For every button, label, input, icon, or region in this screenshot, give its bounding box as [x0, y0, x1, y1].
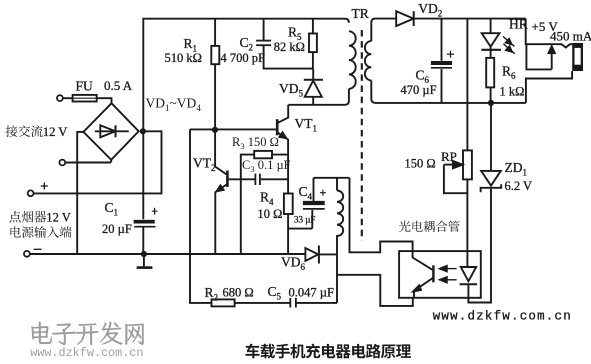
transistor VT2 [226, 171, 229, 187]
C4 plus mark [320, 192, 326, 194]
wire RP bottom to optocoupler LED [466, 179, 468, 267]
resistor R1 510k [214, 19, 216, 46]
wire feedback node to optocoupler collector [350, 178, 413, 253]
wire feedback winding bottom to VD6 and C5 [336, 235, 338, 303]
svg-text:1 kΩ: 1 kΩ [500, 85, 525, 99]
wire +5V rail VD2 cathode to jack [415, 18, 526, 20]
diode VD2 [396, 11, 413, 26]
watermark site name gray [31, 322, 144, 346]
svg-text:RP: RP [441, 149, 457, 164]
wire optocoupler emitter return [337, 275, 413, 306]
capacitor C2 4700pF [263, 19, 265, 40]
capacitor C5 0.047uF [289, 298, 291, 308]
transistor VT1 [276, 119, 279, 135]
optocoupler phototransistor [413, 251, 433, 270]
optocoupler LED [461, 267, 476, 281]
svg-text:TR: TR [352, 6, 369, 21]
wire LED cathode to ZD1 [468, 189, 491, 303]
terminal DC input minus [24, 251, 30, 257]
capacitor C3 0.1uF [254, 174, 256, 185]
VT1 emitter lead and node wire to R4 [278, 133, 288, 194]
svg-text:6.2 V: 6.2 V [505, 179, 533, 193]
resistor R2 680 [212, 299, 235, 306]
transformer TR secondary winding [365, 41, 371, 80]
svg-text:20 µF: 20 µF [102, 222, 132, 236]
svg-text:150 Ω: 150 Ω [405, 157, 436, 171]
svg-text:FU: FU [76, 79, 94, 94]
wire fuse to bridge AC1 [97, 98, 112, 103]
svg-text:0.047 µF: 0.047 µF [289, 286, 334, 300]
VT1 collector lead [278, 105, 288, 123]
capacitor C4 33uF [303, 201, 325, 205]
label optocoupler [399, 221, 460, 232]
svg-text:0.5 A: 0.5 A [104, 78, 133, 93]
plug insertion arrow [526, 44, 551, 69]
title car phone charger schematic [245, 344, 411, 359]
junction ground node [141, 251, 147, 257]
plus polarity mark [41, 185, 48, 187]
wire bridge negative to ground rail [77, 132, 83, 254]
wire C4 bottom link [288, 228, 312, 230]
wire R6 to return rail [490, 87, 492, 103]
label AC 12V input [6, 125, 43, 137]
wire down to R2 [190, 129, 212, 303]
wire secondary bottom output return rail [371, 80, 526, 103]
wire DC negative: C1 bottom to ground junction [142, 227, 144, 255]
RP wiper arrow and link [444, 164, 454, 166]
resistor R3 150 [254, 151, 272, 158]
wire DC plus input to positive node [33, 131, 161, 193]
wire R2 to C5 [235, 302, 290, 304]
output plug barrel [572, 43, 583, 71]
C6 plus mark [447, 53, 454, 55]
wire C4 top to feedback winding [314, 177, 350, 179]
C1 plus mark [154, 208, 156, 215]
svg-text:470 µF: 470 µF [401, 83, 437, 97]
svg-text:450 mA: 450 mA [550, 29, 591, 44]
ground [143, 254, 145, 267]
potentiometer RP 150 [463, 150, 472, 179]
resistor R6 1k [486, 58, 494, 88]
wire secondary top to VD2 anode [371, 19, 396, 41]
svg-text:82 kΩ: 82 kΩ [274, 40, 305, 54]
wire R4 bottom to ground rail [287, 214, 289, 254]
svg-text:12 V: 12 V [46, 211, 71, 225]
svg-text:510 kΩ: 510 kΩ [165, 51, 202, 65]
terminal AC input bottom [59, 160, 65, 166]
svg-text:33 µF: 33 µF [294, 215, 315, 225]
svg-text:4 700 pF: 4 700 pF [221, 51, 266, 65]
wire VT1 collector to primary bottom [288, 89, 349, 105]
wire VT2 base to C3 [228, 178, 254, 180]
wire VD6 cathode to winding node [320, 253, 337, 255]
LED HR indicator [490, 19, 492, 34]
resistor R4 10 [284, 194, 293, 215]
svg-text:www.dzkfw.com.cn: www.dzkfw.com.cn [433, 310, 572, 324]
wire C2 bottom to snubber node [264, 46, 313, 69]
label cigarette lighter 12V [9, 211, 46, 223]
wire return rail to plug sleeve [526, 71, 572, 103]
optocoupler U1 box [399, 251, 481, 298]
wire ZD1 to return rail junction [490, 103, 492, 171]
zener diode ZD1 6.2V [481, 171, 501, 186]
svg-text:C3 0.1 µF: C3 0.1 µF [242, 158, 291, 174]
junction return rail node [488, 100, 494, 106]
diode VD6 [305, 248, 318, 261]
wire DC positive rail: bridge output up and along top to transformer primary [143, 19, 349, 220]
wire R1 to VT1 base node [214, 64, 216, 130]
wire base node left branch [190, 128, 215, 130]
wire VT1 base [215, 128, 276, 130]
wire R3 right to emitter node [272, 154, 288, 156]
bridge rectifier VD1~VD4 diamond [83, 103, 138, 160]
svg-text:HR: HR [509, 17, 528, 32]
wire R3 left to base line and down [241, 155, 254, 254]
wire C5 to winding node [296, 302, 337, 304]
svg-text:www.dzkfw.com.cn: www.dzkfw.com.cn [30, 346, 143, 360]
svg-text:12 V: 12 V [43, 125, 68, 139]
capacitor C6 470uF [441, 19, 443, 61]
wire ground rail to VD6 anode [30, 253, 306, 255]
wire terminal to fuse [63, 97, 73, 99]
terminal AC input top [57, 95, 63, 101]
svg-text:VD1~VD4: VD1~VD4 [146, 96, 202, 114]
wire terminal to bridge AC2 [65, 162, 111, 164]
junction bridge positive node [140, 128, 146, 134]
svg-text:680 Ω: 680 Ω [223, 286, 254, 300]
svg-text:10 Ω: 10 Ω [258, 207, 283, 221]
wire +5V rail down to RP [466, 19, 468, 151]
terminal DC input plus [28, 190, 34, 196]
optocoupler light arrows [441, 268, 457, 270]
capacitor C1 20uF [134, 220, 155, 224]
svg-text:R3 150 Ω: R3 150 Ω [232, 135, 279, 151]
bridge inner diode symbol [95, 130, 129, 132]
transformer TR core [361, 30, 363, 241]
transformer TR feedback winding [336, 178, 338, 191]
transformer TR primary winding [349, 31, 356, 89]
HR light arrows [503, 36, 514, 46]
wire +5V to jack tip contact [526, 19, 573, 48]
wire C3 to emitter node [261, 178, 288, 180]
minus polarity mark [34, 248, 42, 250]
fuse FU 0.5 A [73, 95, 97, 102]
label power input terminal [10, 226, 71, 238]
diode VD5 [312, 69, 314, 80]
resistor R5 82k [312, 19, 314, 34]
junction VT1 base node [212, 127, 218, 133]
